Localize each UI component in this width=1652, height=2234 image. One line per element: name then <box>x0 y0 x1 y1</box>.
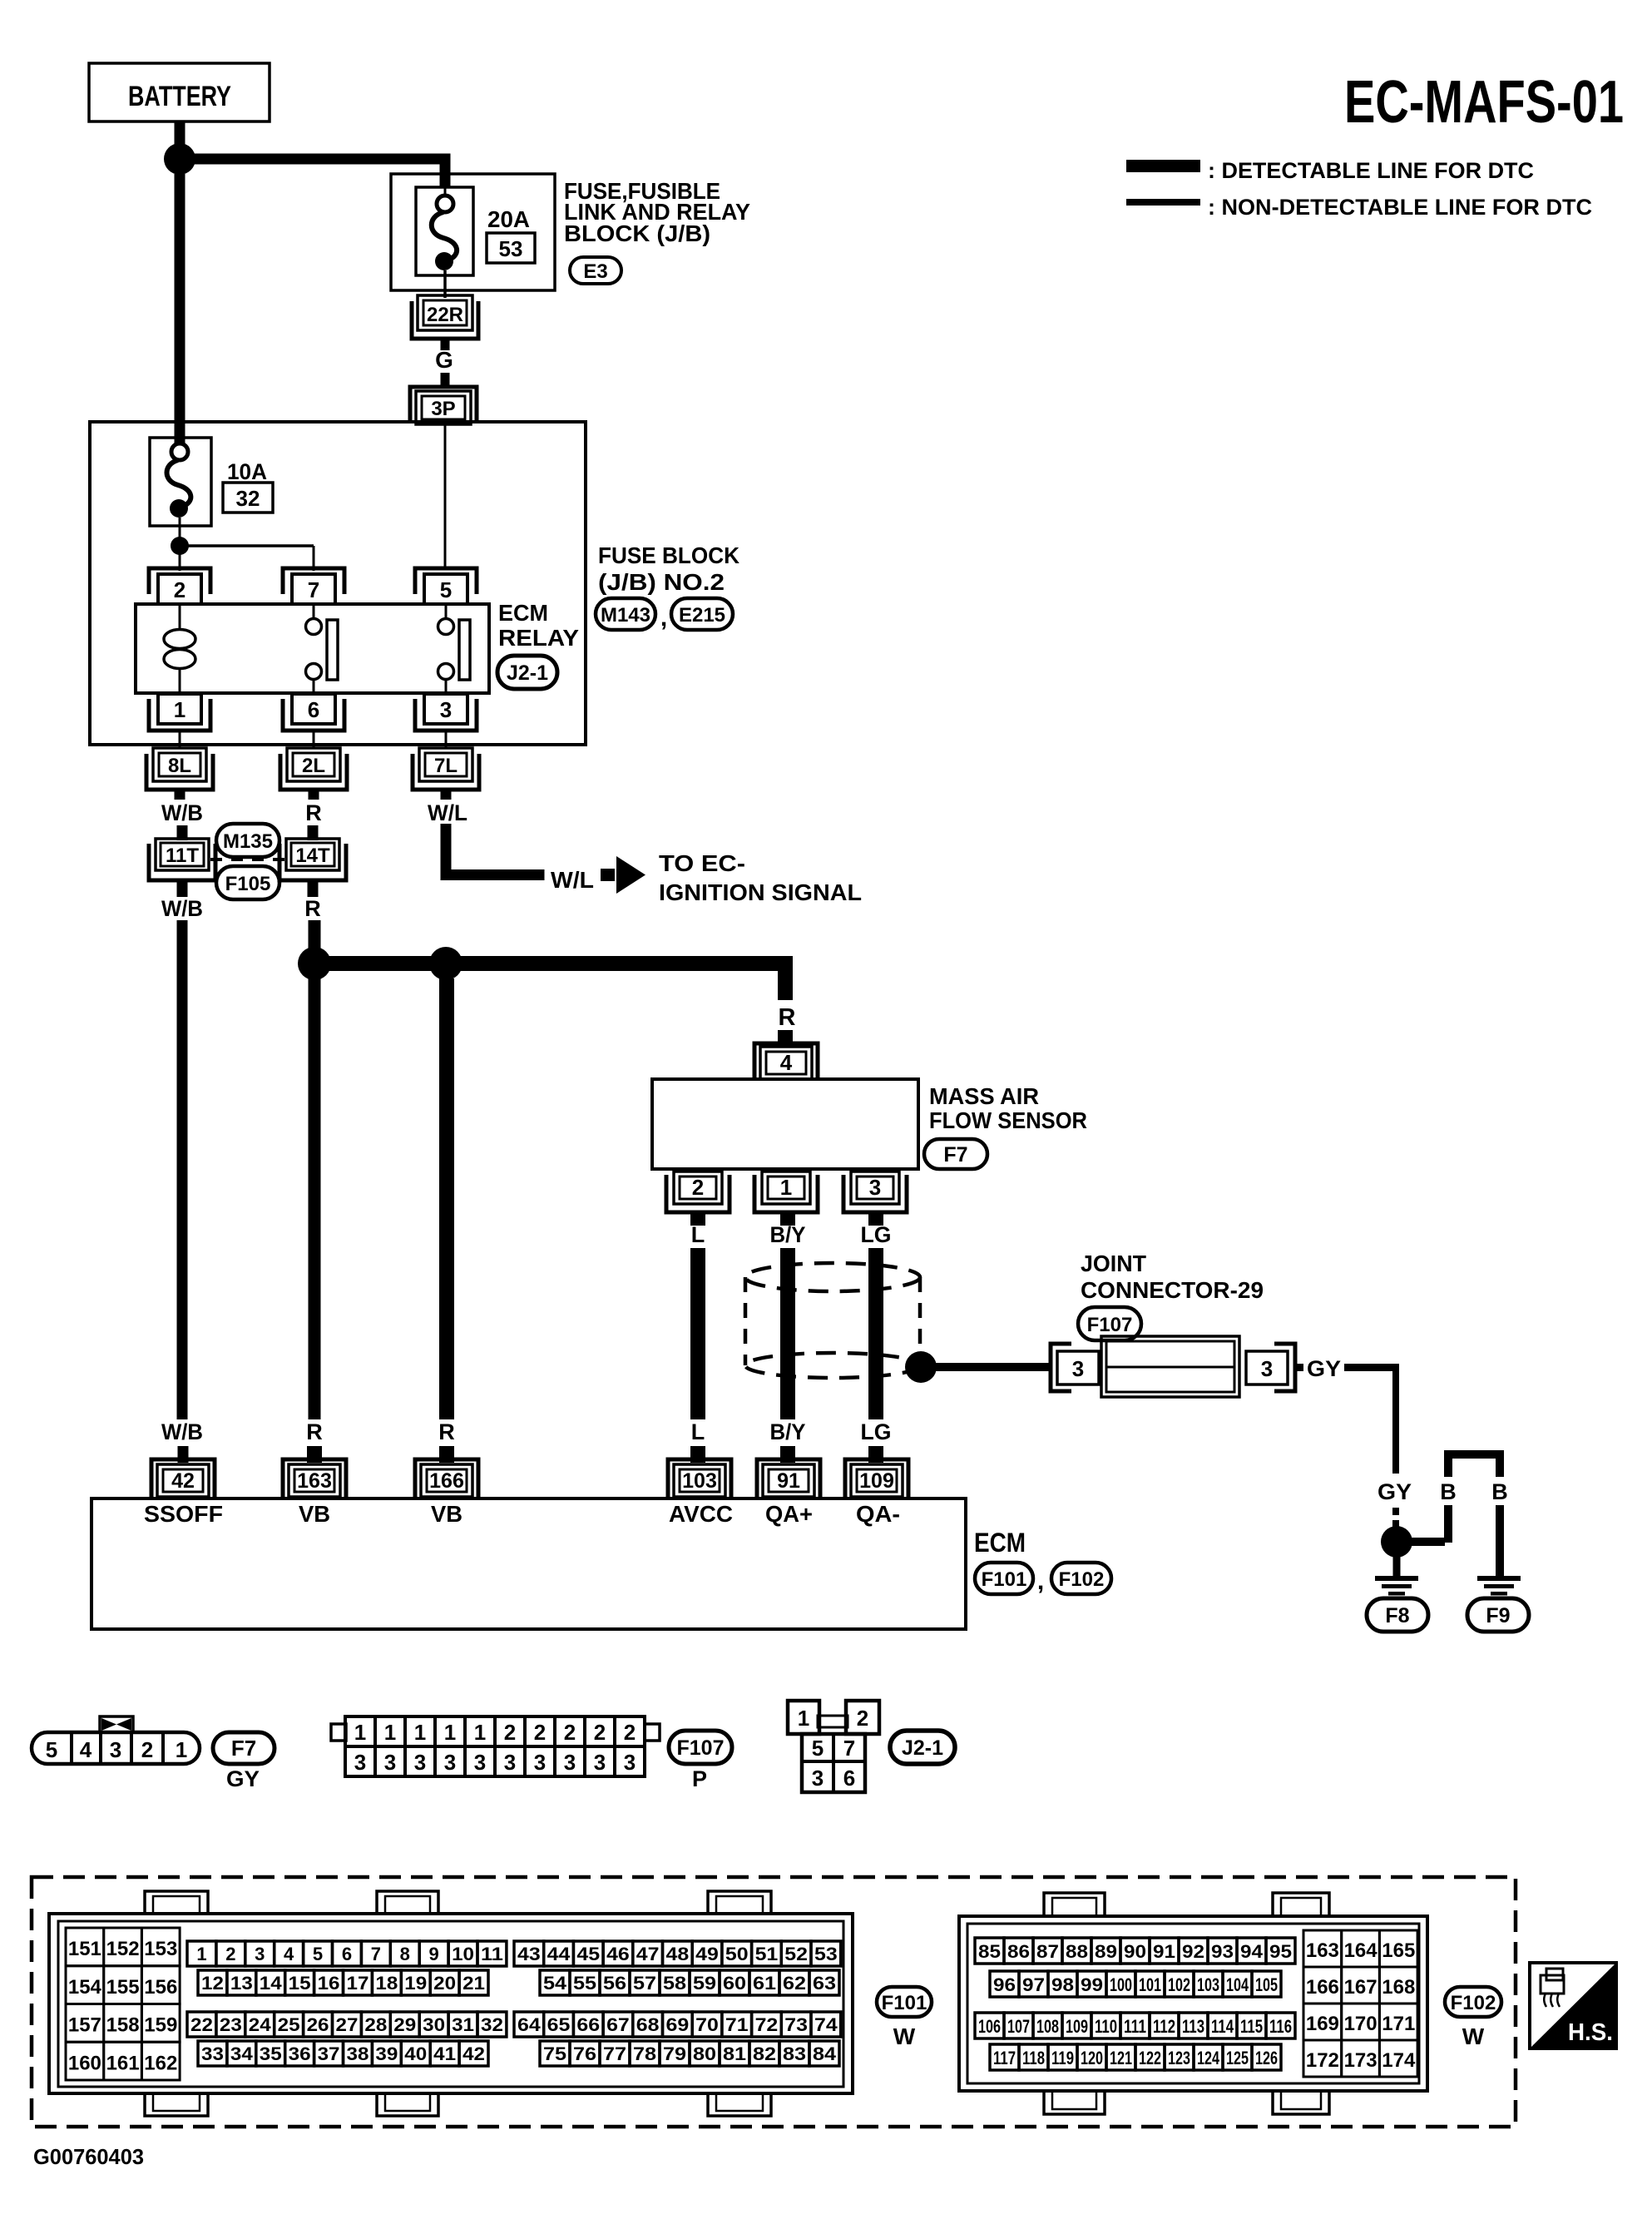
svg-text:43: 43 <box>517 1944 541 1964</box>
svg-text:3: 3 <box>440 697 452 722</box>
ECM terminal 42 <box>151 1459 215 1497</box>
wire R2 down to ECM <box>439 978 454 1419</box>
svg-text:F102: F102 <box>1059 1568 1105 1591</box>
svg-text:F8: F8 <box>1385 1604 1409 1627</box>
svg-text:3: 3 <box>869 1175 881 1200</box>
svg-text:157: 157 <box>68 2014 101 2037</box>
wire B left to splice <box>1412 1505 1452 1546</box>
wire 10A to junction <box>179 518 181 537</box>
terminal 7L <box>413 748 479 790</box>
fuse number 53 <box>487 233 535 263</box>
fusible link block E3 <box>391 174 555 290</box>
svg-text:J2-1: J2-1 <box>902 1736 943 1760</box>
svg-text:174: 174 <box>1382 2049 1416 2072</box>
stub below 11T <box>177 880 188 897</box>
svg-text:7L: 7L <box>434 755 458 777</box>
svg-text:21: 21 <box>462 1973 485 1994</box>
svg-text:163: 163 <box>297 1469 332 1493</box>
svg-text:R: R <box>304 896 321 921</box>
comma between M143 E215 <box>660 604 667 632</box>
label R at MAFS <box>779 1004 796 1031</box>
junction node R2 <box>429 947 462 980</box>
svg-text:B: B <box>1491 1479 1508 1504</box>
svg-text:E3: E3 <box>583 260 607 283</box>
svg-text:110: 110 <box>1095 2016 1117 2037</box>
wire shield to joint connector <box>936 1363 1052 1371</box>
wire R to junction 1 <box>309 920 321 954</box>
svg-text:112: 112 <box>1153 2016 1175 2037</box>
svg-text:59: 59 <box>693 1973 716 1994</box>
svg-text:171: 171 <box>1382 2013 1415 2035</box>
svg-text:4: 4 <box>80 1737 92 1762</box>
stub above terminal 163 <box>307 1446 322 1463</box>
label L at ECM <box>691 1419 705 1444</box>
svg-text:151: 151 <box>68 1938 101 1960</box>
relay pin 6 <box>283 694 344 731</box>
svg-text:W/L: W/L <box>428 800 467 825</box>
svg-text:41: 41 <box>433 2043 456 2064</box>
svg-text:156: 156 <box>144 1976 177 1999</box>
label AVCC <box>669 1501 733 1527</box>
svg-text:CONNECTOR-29: CONNECTOR-29 <box>1081 1277 1264 1303</box>
svg-text:81: 81 <box>723 2043 746 2064</box>
svg-text:47: 47 <box>636 1944 660 1964</box>
label B/Y <box>770 1222 806 1247</box>
wire L to ECM <box>690 1248 705 1419</box>
svg-text:TO EC-: TO EC- <box>659 850 745 876</box>
terminal 22R <box>412 295 478 339</box>
wire splice to ground F8 <box>1393 1556 1401 1578</box>
connector M143 oval <box>596 598 655 630</box>
svg-text:QA+: QA+ <box>765 1501 813 1527</box>
svg-text:1: 1 <box>384 1720 396 1745</box>
svg-text:109: 109 <box>859 1469 894 1493</box>
stub R to pin 4 <box>778 1030 793 1045</box>
svg-text:117: 117 <box>993 2048 1016 2068</box>
junction node below 10A <box>171 537 189 555</box>
svg-text:F7: F7 <box>231 1736 256 1761</box>
joint connector body <box>1101 1336 1239 1397</box>
wire battery to 10A fuse <box>175 174 185 443</box>
wire pin1 to 8L <box>179 731 181 748</box>
wire 3P to pin 5 <box>444 424 447 570</box>
svg-text:67: 67 <box>606 2014 630 2035</box>
svg-text:169: 169 <box>1306 2013 1339 2035</box>
svg-text:91: 91 <box>1153 1941 1175 1962</box>
svg-text:MASS AIR: MASS AIR <box>929 1083 1039 1109</box>
label P under F107 <box>692 1766 707 1791</box>
svg-text:22: 22 <box>190 2014 213 2035</box>
wire G lower stub <box>441 373 450 386</box>
mass air flow sensor body F7 <box>652 1079 918 1169</box>
svg-text:104: 104 <box>1226 1974 1249 1995</box>
svg-text:70: 70 <box>695 2014 719 2035</box>
svg-text:LG: LG <box>861 1222 892 1247</box>
svg-text:B: B <box>1440 1479 1457 1504</box>
comma between F101 F102 <box>1037 1568 1044 1595</box>
svg-text:F107: F107 <box>677 1736 725 1760</box>
wire junction to pin 7 <box>180 546 314 571</box>
svg-text:R: R <box>306 1419 323 1444</box>
junction node R1 <box>298 947 331 980</box>
svg-text:F101: F101 <box>882 1992 927 2014</box>
svg-text:119: 119 <box>1051 2048 1074 2068</box>
svg-text:63: 63 <box>813 1973 836 1994</box>
svg-text:W/L: W/L <box>551 867 594 893</box>
stub below 14T <box>308 880 319 897</box>
svg-text:77: 77 <box>603 2043 626 2064</box>
svg-text:32: 32 <box>481 2014 503 2035</box>
connector F107 oval bottom <box>669 1731 732 1764</box>
svg-text:97: 97 <box>1022 1974 1045 1995</box>
svg-text:JOINT: JOINT <box>1081 1251 1146 1276</box>
stub below 7L <box>441 790 452 800</box>
svg-text:SSOFF: SSOFF <box>144 1501 223 1527</box>
svg-text:W/B: W/B <box>161 800 203 825</box>
svg-text:166: 166 <box>1306 1976 1339 1999</box>
svg-text:154: 154 <box>68 1976 102 1999</box>
svg-text:74: 74 <box>814 2014 838 2035</box>
svg-text:106: 106 <box>978 2016 1001 2037</box>
stub above 11T <box>177 825 188 840</box>
svg-text:2: 2 <box>225 1944 235 1964</box>
label W/B at ECM <box>161 1419 203 1444</box>
connector F101 oval <box>975 1563 1033 1594</box>
label ECM <box>974 1528 1026 1558</box>
svg-text:15: 15 <box>289 1973 311 1994</box>
wire B right to ground F9 <box>1496 1505 1504 1578</box>
svg-text:101: 101 <box>1139 1974 1161 1995</box>
relay contact 5-3 <box>438 604 471 693</box>
svg-text:172: 172 <box>1306 2049 1339 2072</box>
svg-text:89: 89 <box>1095 1941 1117 1962</box>
svg-text:30: 30 <box>423 2014 445 2035</box>
svg-text:3P: 3P <box>431 398 455 420</box>
svg-text:38: 38 <box>347 2043 369 2064</box>
relay pin 7 <box>283 568 344 604</box>
connector E3 oval <box>570 257 621 284</box>
svg-text:95: 95 <box>1269 1941 1292 1962</box>
svg-text:53: 53 <box>499 236 523 261</box>
svg-text:162: 162 <box>144 2052 177 2074</box>
svg-text:3: 3 <box>594 1750 606 1775</box>
svg-text:11: 11 <box>481 1944 503 1964</box>
terminal 11T connector M135/F105 <box>149 839 215 880</box>
svg-text:W/B: W/B <box>161 896 203 921</box>
svg-text:17: 17 <box>347 1973 369 1994</box>
svg-text:26: 26 <box>307 2014 329 2035</box>
svg-text:48: 48 <box>666 1944 690 1964</box>
svg-text:18: 18 <box>375 1973 398 1994</box>
connector J2-1 oval <box>497 656 557 689</box>
svg-text:80: 80 <box>693 2043 716 2064</box>
svg-text:52: 52 <box>784 1944 808 1964</box>
svg-text:103: 103 <box>1197 1974 1219 1995</box>
svg-text:3: 3 <box>1072 1356 1084 1381</box>
H.S. view icon <box>1530 1963 1616 2048</box>
svg-text:98: 98 <box>1051 1974 1074 1995</box>
svg-text:2: 2 <box>857 1706 868 1731</box>
wire R1 down to ECM <box>309 978 321 1419</box>
svg-text:23: 23 <box>220 2014 242 2035</box>
stub above terminal 103 <box>690 1446 705 1463</box>
svg-text:125: 125 <box>1226 2048 1249 2068</box>
label GY joint <box>1295 1356 1341 1381</box>
svg-text:2: 2 <box>692 1175 704 1200</box>
svg-text:55: 55 <box>573 1973 596 1994</box>
svg-text:114: 114 <box>1211 2016 1234 2037</box>
label R at ECM 166 <box>438 1419 455 1444</box>
label G <box>435 347 453 373</box>
terminal 14T <box>279 839 346 880</box>
label SSOFF <box>144 1501 223 1527</box>
label JOINT CONNECTOR-29 <box>1081 1251 1264 1303</box>
svg-text:83: 83 <box>783 2043 806 2064</box>
svg-text:RELAY: RELAY <box>498 625 579 651</box>
svg-text:3: 3 <box>564 1750 576 1775</box>
dashed frame ECM connectors <box>32 1877 1516 2127</box>
label fuse fusible link and relay block <box>564 178 750 246</box>
svg-text:BATTERY: BATTERY <box>128 81 231 112</box>
label VB 166 <box>431 1501 462 1527</box>
svg-text:1: 1 <box>780 1175 792 1200</box>
fuse number 32 <box>223 483 273 513</box>
connector F102 oval bottom <box>1445 1987 1501 2017</box>
svg-text:78: 78 <box>633 2043 656 2064</box>
svg-text:2: 2 <box>564 1720 576 1745</box>
wire W/B to ECM <box>177 920 188 1419</box>
wire W/L elbow <box>441 824 545 880</box>
MAFS pin 3 <box>843 1171 907 1212</box>
svg-text:61: 61 <box>753 1973 776 1994</box>
svg-text:16: 16 <box>318 1973 340 1994</box>
svg-text:20A: 20A <box>487 206 530 232</box>
svg-text:111: 111 <box>1124 2016 1146 2037</box>
svg-text:76: 76 <box>573 2043 596 2064</box>
svg-text:2: 2 <box>534 1720 546 1745</box>
svg-text:3: 3 <box>255 1944 265 1964</box>
svg-text:F102: F102 <box>1451 1992 1496 2014</box>
label B right <box>1491 1479 1508 1504</box>
junction node ground splice <box>1381 1526 1412 1558</box>
label R at ECM 163 <box>306 1419 323 1444</box>
connector view F7 pill <box>32 1732 200 1764</box>
label W/L upper <box>428 800 467 825</box>
svg-text:VB: VB <box>431 1501 462 1527</box>
svg-text:122: 122 <box>1139 2048 1161 2068</box>
svg-text:107: 107 <box>1007 2016 1030 2037</box>
svg-text:B/Y: B/Y <box>770 1222 806 1247</box>
svg-text:72: 72 <box>755 2014 779 2035</box>
svg-text:28: 28 <box>364 2014 387 2035</box>
relay pin 3 <box>415 694 477 731</box>
label W under F102 <box>1462 2023 1485 2049</box>
svg-text:H.S.: H.S. <box>1568 2019 1613 2046</box>
svg-text:75: 75 <box>543 2043 566 2064</box>
svg-text:87: 87 <box>1036 1941 1059 1962</box>
svg-text:121: 121 <box>1110 2048 1132 2068</box>
wire junction to pin 2 <box>179 546 181 571</box>
svg-text:58: 58 <box>663 1973 686 1994</box>
bus R to pin 4 <box>314 956 793 1000</box>
svg-text:163: 163 <box>1306 1939 1339 1962</box>
relay coil <box>164 604 195 693</box>
stub below MAFS pin 2 <box>690 1212 705 1226</box>
label LG <box>861 1222 892 1247</box>
label W/B upper <box>161 800 203 825</box>
svg-text:4: 4 <box>780 1050 793 1075</box>
legend non-detectable line <box>1126 195 1592 220</box>
connector F9 oval <box>1467 1598 1529 1632</box>
svg-text:124: 124 <box>1197 2048 1220 2068</box>
svg-text:W/B: W/B <box>161 1419 203 1444</box>
svg-text:10A: 10A <box>227 459 267 484</box>
svg-text:56: 56 <box>603 1973 626 1994</box>
svg-text:69: 69 <box>666 2014 690 2035</box>
svg-text:92: 92 <box>1182 1941 1204 1962</box>
connector view F107 <box>331 1716 660 1776</box>
svg-text:ECM: ECM <box>974 1528 1026 1558</box>
svg-text:L: L <box>691 1222 705 1247</box>
svg-text:85: 85 <box>978 1941 1001 1962</box>
svg-text:45: 45 <box>576 1944 600 1964</box>
svg-text:12: 12 <box>201 1973 224 1994</box>
svg-text:B/Y: B/Y <box>770 1419 806 1444</box>
svg-text:86: 86 <box>1007 1941 1030 1962</box>
svg-text:173: 173 <box>1344 2049 1377 2072</box>
svg-text:105: 105 <box>1255 1974 1278 1995</box>
svg-text:1: 1 <box>196 1944 206 1964</box>
svg-text:161: 161 <box>106 2052 140 2074</box>
svg-text:(J/B) NO.2: (J/B) NO.2 <box>598 569 725 595</box>
F102 grid 85-126 <box>975 1938 1295 2070</box>
svg-text:AVCC: AVCC <box>669 1501 733 1527</box>
svg-text:103: 103 <box>682 1469 717 1493</box>
MAFS pin 4 <box>754 1043 818 1079</box>
svg-text:19: 19 <box>404 1973 427 1994</box>
junction node battery <box>164 143 195 175</box>
svg-text:35: 35 <box>260 2043 282 2064</box>
svg-text:109: 109 <box>1066 2016 1088 2037</box>
relay contact 7-6 <box>306 604 339 693</box>
svg-text:11T: 11T <box>166 845 199 867</box>
svg-text:F105: F105 <box>225 873 271 895</box>
connector view J2-1 <box>788 1701 879 1792</box>
svg-text:5: 5 <box>440 577 452 602</box>
svg-text:,: , <box>1037 1568 1044 1595</box>
svg-text:J2-1: J2-1 <box>507 661 548 685</box>
svg-text:14T: 14T <box>295 845 330 867</box>
svg-text:22R: 22R <box>427 304 463 326</box>
label MASS AIR FLOW SENSOR <box>929 1083 1087 1133</box>
svg-text:68: 68 <box>636 2014 660 2035</box>
svg-text:F9: F9 <box>1486 1604 1510 1627</box>
svg-text:FUSE BLOCK: FUSE BLOCK <box>598 542 739 568</box>
svg-text:164: 164 <box>1344 1939 1378 1962</box>
label TO EC-IGNITION SIGNAL <box>659 850 862 905</box>
relay pin 2 <box>149 568 210 604</box>
svg-text:1: 1 <box>174 697 185 722</box>
wire B/Y to ECM <box>780 1248 795 1419</box>
svg-text:P: P <box>692 1766 707 1791</box>
wire G <box>441 339 450 350</box>
label QA- <box>856 1501 900 1527</box>
svg-text:34: 34 <box>230 2043 254 2064</box>
svg-text:42: 42 <box>171 1469 195 1493</box>
svg-text:73: 73 <box>784 2014 808 2035</box>
svg-text:118: 118 <box>1022 2048 1045 2068</box>
svg-text:31: 31 <box>452 2014 474 2035</box>
label R mid <box>304 896 321 921</box>
svg-text:165: 165 <box>1382 1939 1415 1962</box>
terminal 3P <box>410 387 477 424</box>
svg-text:152: 152 <box>106 1938 140 1960</box>
svg-text:GY: GY <box>226 1766 260 1791</box>
ECM body F101 F102 <box>92 1498 966 1629</box>
relay pin 1 <box>149 694 210 731</box>
label 10A <box>227 459 267 484</box>
svg-text:155: 155 <box>106 1976 140 1999</box>
figure id G00760403 <box>33 2144 144 2169</box>
svg-text:LG: LG <box>861 1419 892 1444</box>
label B/Y at ECM <box>770 1419 806 1444</box>
svg-text:84: 84 <box>813 2043 837 2064</box>
F101 grid 43-84 <box>514 1941 841 2066</box>
stub above terminal 166 <box>439 1446 454 1463</box>
connector J2-1 oval bottom <box>890 1731 955 1764</box>
label W/B lower <box>161 896 203 921</box>
F102 grid 163-174 <box>1303 1930 1417 2077</box>
label GY under F7 <box>226 1766 260 1791</box>
svg-text:4: 4 <box>284 1944 294 1964</box>
svg-text:1: 1 <box>798 1706 809 1731</box>
svg-text:93: 93 <box>1211 1941 1234 1962</box>
ECM terminal 109 <box>845 1459 908 1497</box>
label W/L arrow <box>551 867 594 893</box>
svg-text:94: 94 <box>1240 1941 1264 1962</box>
svg-text:M135: M135 <box>223 830 273 853</box>
connector F8 oval <box>1367 1598 1428 1632</box>
svg-text:99: 99 <box>1081 1974 1103 1995</box>
svg-text:32: 32 <box>236 486 260 511</box>
wire battery to junction <box>175 121 185 145</box>
svg-text:39: 39 <box>375 2043 398 2064</box>
label GY ground <box>1377 1479 1412 1504</box>
svg-text:91: 91 <box>777 1469 800 1493</box>
svg-text:82: 82 <box>753 2043 776 2064</box>
stub below 2L <box>309 790 319 800</box>
svg-text:: NON-DETECTABLE LINE FOR DTC: : NON-DETECTABLE LINE FOR DTC <box>1208 195 1592 220</box>
ground symbol F9 <box>1477 1576 1521 1596</box>
svg-text:FLOW SENSOR: FLOW SENSOR <box>929 1107 1087 1133</box>
ECM terminal 103 <box>668 1459 731 1497</box>
svg-text:3: 3 <box>1261 1356 1273 1381</box>
svg-text:1: 1 <box>444 1720 456 1745</box>
svg-text:9: 9 <box>429 1944 439 1964</box>
wire GY dashes to splice <box>1392 1508 1399 1528</box>
ECM relay body J2-1 <box>136 604 489 693</box>
ECM connector F101 housing <box>49 1891 853 2116</box>
MAFS pin 2 <box>666 1171 730 1212</box>
svg-text:3: 3 <box>534 1750 546 1775</box>
F101 grid 151-162 <box>66 1928 180 2080</box>
svg-text:VB: VB <box>299 1501 330 1527</box>
svg-text:3: 3 <box>384 1750 396 1775</box>
title EC-MAFS-01 <box>1344 69 1624 136</box>
svg-text:5: 5 <box>46 1737 57 1762</box>
stub above terminal 91 <box>780 1446 795 1463</box>
svg-text:168: 168 <box>1382 1976 1415 1999</box>
